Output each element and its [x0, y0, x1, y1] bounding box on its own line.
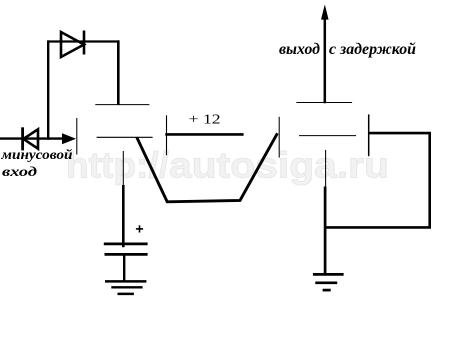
svg-text:вход: вход: [2, 164, 37, 179]
Q1 base bar: [76, 118, 78, 155]
Q2 right electrode bar: [368, 114, 370, 156]
svg-text:с задержкой: с задержкой: [329, 41, 416, 58]
ground (below capacitor): [105, 281, 146, 294]
wire Q2 middle plate down (thin upper part): [325, 150, 327, 191]
wire to capacitor (thick lower part): [122, 185, 125, 247]
wire capacitor to ground: [123, 254, 125, 281]
delayed output arrow: [324, 17, 327, 103]
wire top-left horizontal (diode branch): [48, 40, 119, 42]
svg-text:минусовой: минусовой: [0, 147, 73, 162]
svg-text:выход: выход: [279, 41, 320, 58]
capacitor C1 plus sign: [136, 225, 143, 232]
arrowhead into Q1 base: [62, 133, 76, 144]
+12 supply wire: [165, 133, 243, 136]
ground (right): [313, 274, 344, 290]
Q1 middle plate: [97, 136, 153, 138]
Q2 base bar: [278, 117, 280, 158]
wire Q1 middle plate down to capacitor (thin upper part): [122, 151, 124, 193]
Q1 top (collector) plate: [95, 104, 149, 106]
diode D1 (top, anode left): [61, 31, 84, 58]
wire Q2 right bar to right rail: [326, 133, 430, 227]
wire from D1 down to Q1 collector plate: [117, 40, 120, 104]
svg-text:http://: http://: [66, 144, 169, 185]
wire left vertical down to input junction: [47, 40, 49, 139]
svg-text:+ 12: + 12: [189, 112, 221, 127]
minus input wire: [0, 137, 63, 139]
capacitor C1 bottom plate: [105, 253, 148, 256]
diode D2 (input, cathode left): [23, 127, 38, 150]
Q2 top (collector) plate: [296, 102, 352, 104]
Q2 middle plate: [299, 135, 356, 137]
emitter wire trapezoid Q1 -> Q2 base: [137, 133, 278, 202]
capacitor C1 top plate: [104, 243, 148, 246]
wire down to ground (thick lower part): [324, 187, 327, 275]
Q1 right electrode bar (+12): [166, 115, 168, 155]
